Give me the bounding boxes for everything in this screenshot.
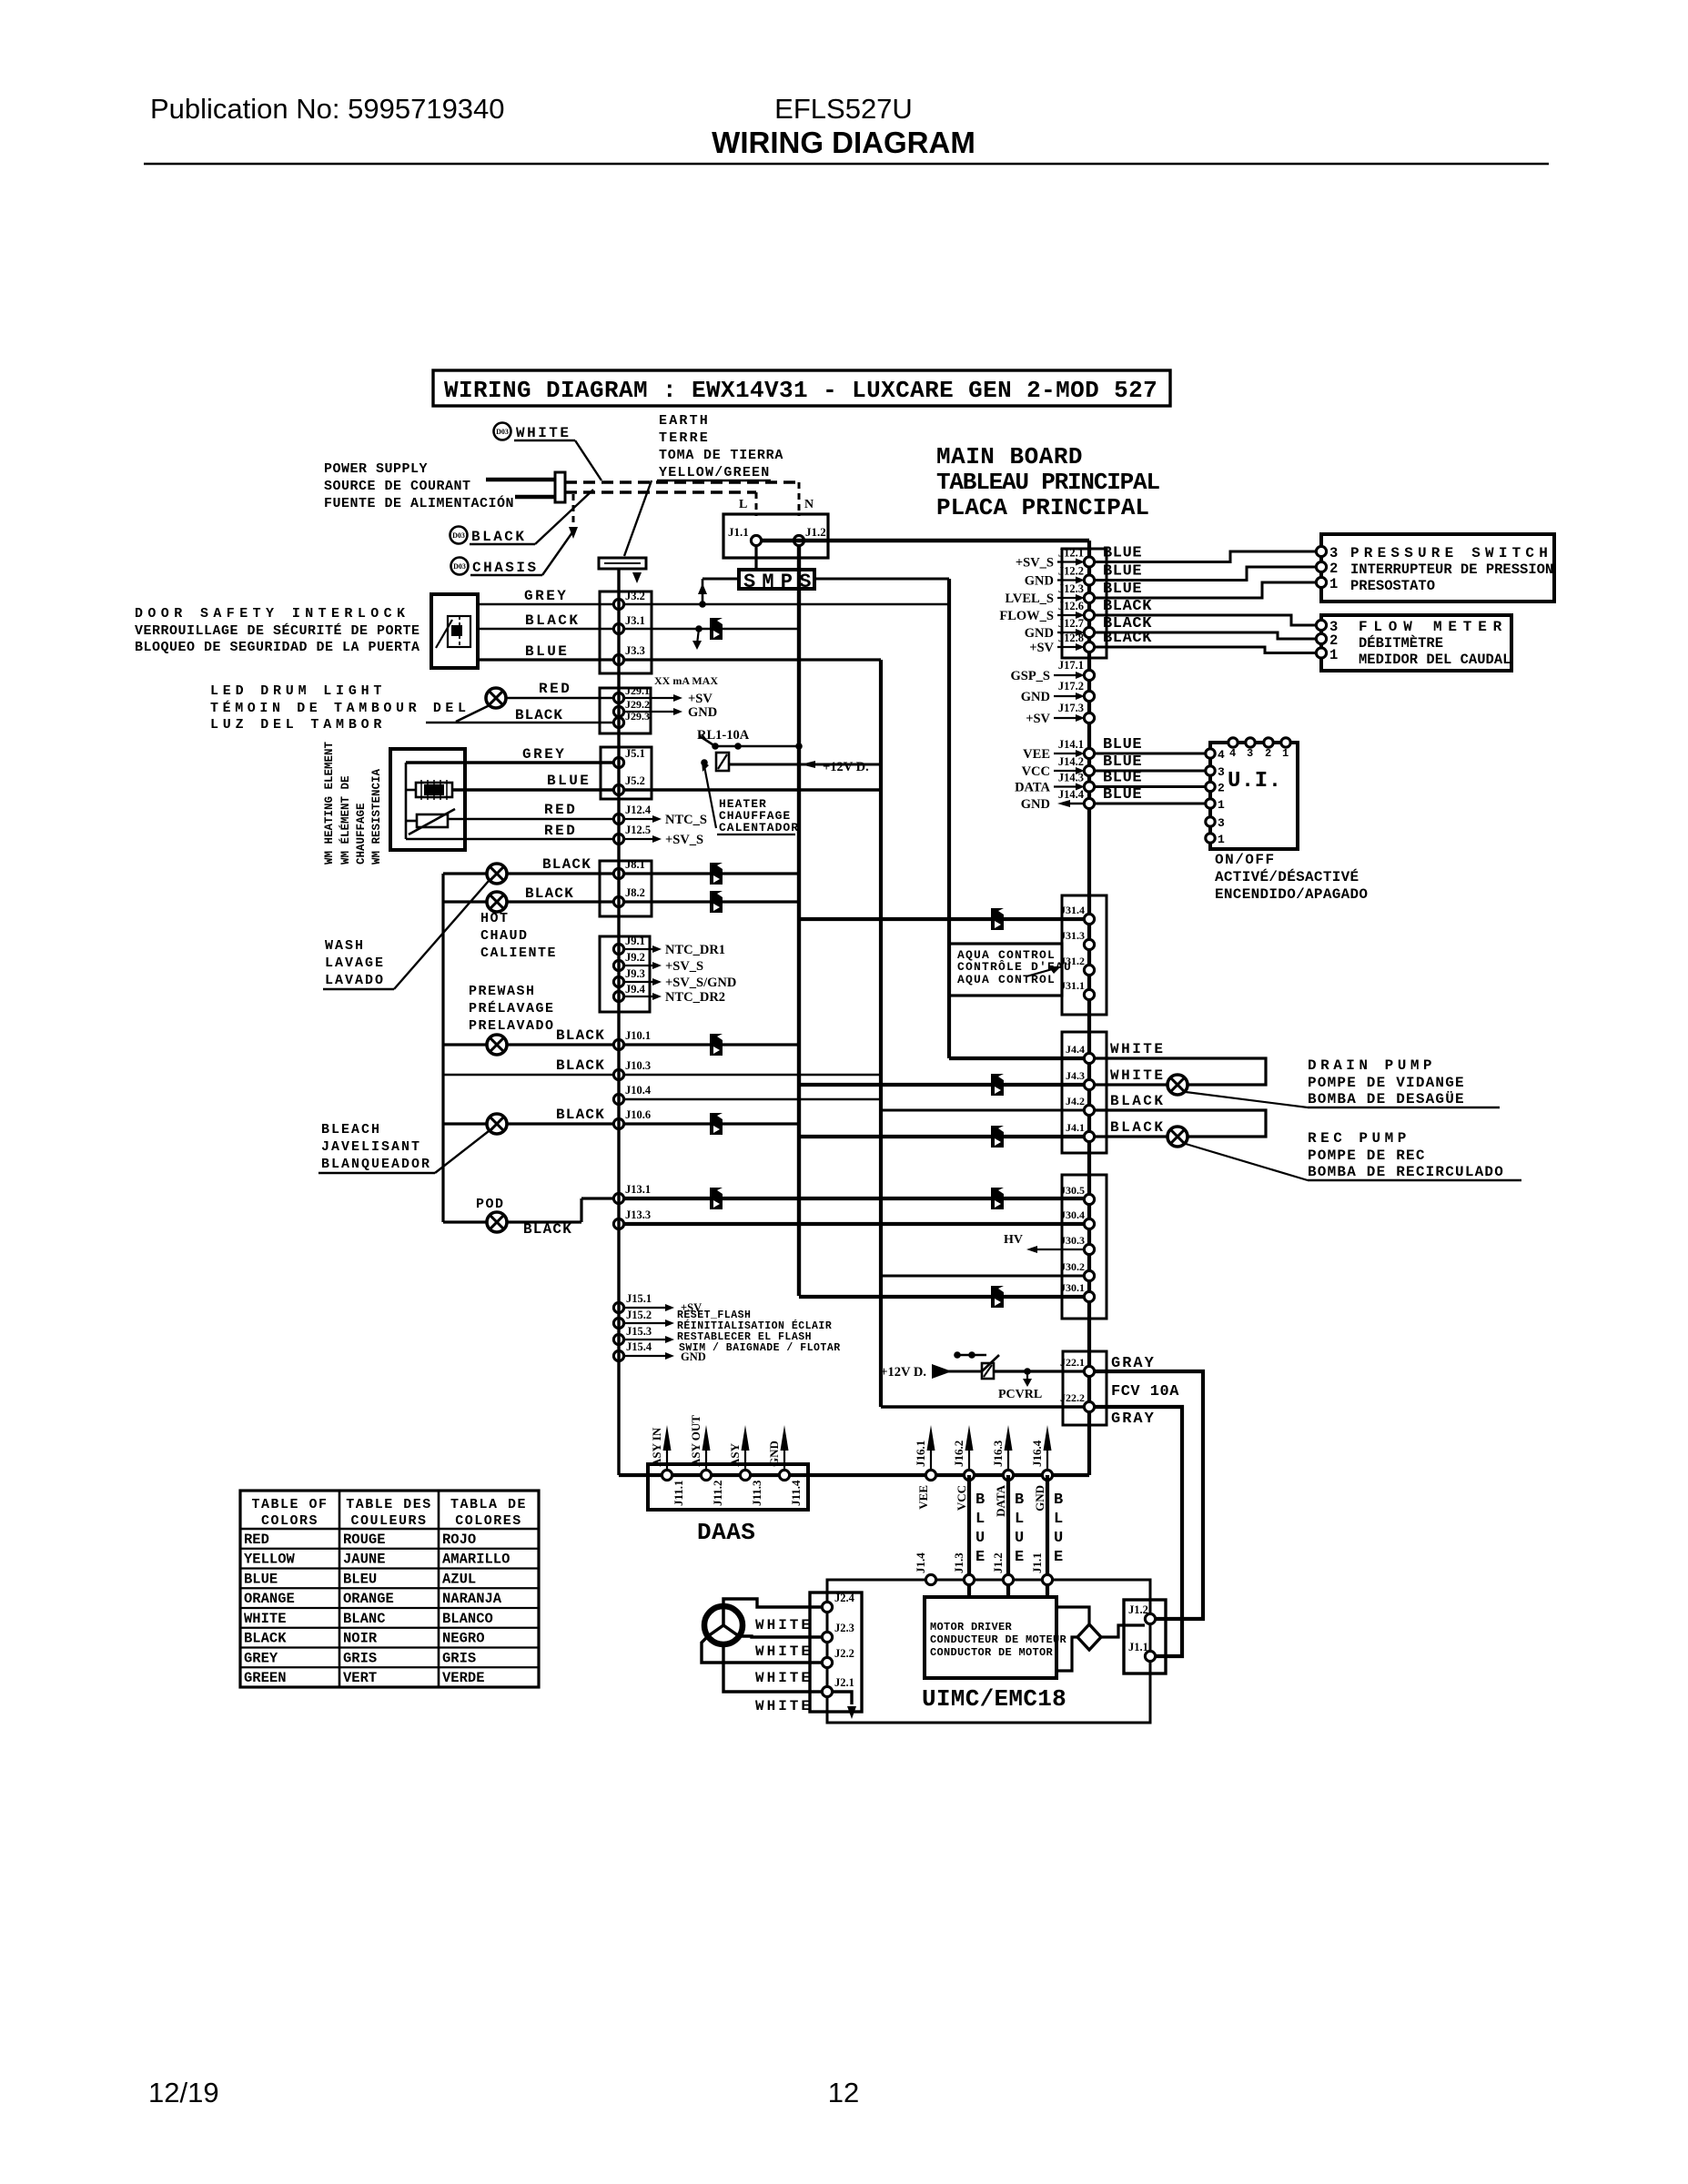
svg-text:GREY: GREY: [244, 1650, 278, 1666]
pin J1.4 (top edge): [925, 1574, 935, 1584]
svg-text:MAIN BOARD: MAIN BOARD: [936, 443, 1083, 470]
svg-text:J3.3: J3.3: [625, 644, 645, 657]
svg-text:WHITE: WHITE: [755, 1698, 813, 1714]
component: door interlock switch: [431, 594, 478, 668]
svg-text:BLOQUEO DE SEGURIDAD DE LA PUE: BLOQUEO DE SEGURIDAD DE LA PUERTA: [135, 640, 420, 655]
stub J17.1 GSP_S: [1054, 674, 1078, 676]
pin J17.1: [1084, 670, 1094, 680]
pin J11.2: [701, 1470, 711, 1480]
pin J14.2: [1084, 765, 1094, 775]
svg-text:BLUE: BLUE: [1103, 736, 1142, 753]
svg-text:RED: RED: [544, 802, 577, 818]
arrow above J16.4: [1046, 1436, 1048, 1470]
stub J12.8 +SV: [1057, 646, 1078, 648]
stub: J15.1 +SV: [624, 1307, 667, 1309]
wire: N bus down: [797, 546, 801, 1296]
svg-text:E: E: [975, 1549, 985, 1566]
valve: wash: [487, 892, 507, 912]
header rule: [144, 163, 1549, 165]
svg-text:BLUE: BLUE: [244, 1571, 278, 1587]
pin J4.3: [1084, 1079, 1094, 1089]
svg-text:WHITE: WHITE: [755, 1670, 813, 1686]
triac on J8.2: [710, 891, 723, 913]
svg-text:BLACK: BLACK: [1110, 1119, 1166, 1136]
wire: J30.2 from neutral riser: [881, 1275, 1084, 1278]
svg-text:J15.3: J15.3: [626, 1325, 652, 1338]
svg-text:BLUE: BLUE: [547, 773, 591, 789]
svg-text:BLANCO: BLANCO: [442, 1611, 493, 1627]
svg-text:J10.6: J10.6: [625, 1108, 651, 1121]
stub: J12.4 NTC_S: [624, 818, 653, 820]
wire: J13.1 to J30.5: [624, 1197, 1084, 1200]
svg-text:LAVAGE: LAVAGE: [325, 955, 385, 971]
svg-text:VEE: VEE: [916, 1485, 930, 1510]
svg-text:J12.3: J12.3: [1058, 582, 1084, 595]
pin J16.2: [964, 1470, 974, 1480]
component: diamond link: [1077, 1624, 1101, 1650]
svg-text:J12.6: J12.6: [1058, 600, 1084, 612]
pin J1.3 (top edge): [964, 1574, 974, 1584]
svg-text:B: B: [1054, 1491, 1063, 1509]
svg-text:VERROUILLAGE DE SÉCURITÉ DE PO: VERROUILLAGE DE SÉCURITÉ DE PORTE: [135, 622, 420, 639]
svg-text:COLORES: COLORES: [455, 1513, 522, 1529]
stub J14.3 DATA: [1054, 785, 1078, 787]
pin J9.4: [613, 991, 623, 1001]
svg-text:J12.8: J12.8: [1058, 632, 1084, 644]
stub: J15.3 swim: [624, 1339, 667, 1340]
svg-text:HOT: HOT: [480, 911, 510, 926]
wire: J14.1 to UI: [1095, 753, 1206, 755]
wire: NTC left lead: [406, 820, 417, 823]
svg-text:FUENTE DE ALIMENTACIÓN: FUENTE DE ALIMENTACIÓN: [324, 495, 514, 511]
pin J1.2: [793, 535, 804, 545]
wire: grey J5.1: [406, 761, 619, 763]
pin J13.3: [613, 1218, 623, 1228]
pin J12.4: [613, 814, 623, 824]
pin J17.3: [1084, 713, 1094, 723]
svg-text:1: 1: [1218, 833, 1225, 846]
svg-text:1: 1: [1329, 647, 1338, 663]
svg-text:J11.2: J11.2: [711, 1480, 724, 1506]
wire: +12V D. feed: [729, 763, 881, 766]
wire: bleach label pointer: [435, 1131, 489, 1173]
svg-text:BLACK: BLACK: [525, 885, 574, 902]
svg-text:1: 1: [1282, 747, 1289, 760]
svg-text:BLACK: BLACK: [556, 1107, 605, 1123]
svg-text:WHITE: WHITE: [755, 1617, 813, 1633]
svg-text:WHITE: WHITE: [1110, 1067, 1166, 1084]
svg-text:J9.1: J9.1: [625, 935, 645, 947]
wire: grey J3.2: [478, 603, 619, 606]
switch: FCV relay contact: [957, 1354, 986, 1357]
connector: power supply plug: [486, 478, 555, 482]
svg-text:WIRING DIAGRAM : EWX14V31 - LU: WIRING DIAGRAM : EWX14V31 - LUXCARE GEN …: [444, 377, 1157, 404]
stub J14.2 VCC: [1054, 770, 1078, 772]
svg-text:J5.1: J5.1: [625, 747, 645, 760]
svg-text:4: 4: [1218, 748, 1225, 762]
wire: J12.3 to pressure pin1: [1095, 582, 1316, 598]
pin J5.1: [613, 757, 623, 767]
svg-text:MOTOR DRIVER: MOTOR DRIVER: [930, 1621, 1013, 1633]
stub: J15.2 reset: [624, 1322, 667, 1324]
wire: J12.8 to flow pin1: [1095, 647, 1316, 653]
svg-text:J3.1: J3.1: [625, 614, 645, 627]
svg-text:BLACK: BLACK: [556, 1057, 605, 1074]
wire: J4.3 to drain pump: [1095, 1083, 1167, 1086]
wire: motor riser 1: [967, 1475, 971, 1580]
svg-text:REC PUMP: REC PUMP: [1308, 1130, 1410, 1147]
svg-text:DOOR SAFETY INTERLOCK: DOOR SAFETY INTERLOCK: [135, 606, 409, 622]
wire: J22.2 row from neutral riser: [881, 1405, 1084, 1408]
svg-text:J30.1: J30.1: [1060, 1281, 1085, 1294]
wire: driver to diamond left: [1056, 1637, 1077, 1671]
wire: wash label pointer: [394, 881, 489, 989]
svg-text:J8.1: J8.1: [625, 858, 645, 871]
svg-text:J31.1: J31.1: [1060, 979, 1085, 992]
svg-text:BLACK: BLACK: [525, 612, 581, 629]
svg-text:CALIENTE: CALIENTE: [480, 945, 557, 961]
arrow above J11.1: [666, 1436, 668, 1470]
relay contact: [715, 745, 799, 748]
pin J29.3: [613, 717, 623, 727]
svg-text:+SV: +SV: [688, 692, 713, 706]
svg-text:J14.2: J14.2: [1058, 755, 1084, 768]
wire: wash valve feed: [443, 900, 487, 903]
wire: J10.1 right: [624, 1043, 799, 1046]
valve: prewash: [487, 1035, 507, 1055]
wire: motor to J2.3: [739, 1636, 822, 1637]
wire: black J10.6: [507, 1122, 619, 1125]
svg-text:ROUGE: ROUGE: [343, 1532, 386, 1548]
svg-text:GND: GND: [1025, 574, 1054, 589]
wire: J1.1 down to SMPS: [754, 546, 757, 570]
wire: prewash feed: [443, 1043, 487, 1046]
svg-text:2: 2: [1265, 747, 1271, 760]
stub J14.1 VEE: [1054, 753, 1078, 754]
svg-text:J4.3: J4.3: [1066, 1069, 1085, 1082]
svg-text:BLACK: BLACK: [542, 856, 591, 873]
svg-text:LED DRUM LIGHT: LED DRUM LIGHT: [210, 683, 386, 699]
motor M: [704, 1606, 743, 1644]
svg-text:BLACK: BLACK: [244, 1631, 287, 1647]
pin UI left 1: [1206, 834, 1215, 843]
svg-text:2: 2: [1218, 782, 1225, 795]
pin J30.1: [1084, 1291, 1094, 1301]
wire: blue J3.3 right to neutral riser: [624, 658, 881, 661]
svg-text:CALENTADOR: CALENTADOR: [719, 821, 799, 834]
pin J22.1: [1084, 1366, 1094, 1376]
svg-text:POD: POD: [476, 1197, 505, 1212]
pin J12.2: [1084, 575, 1094, 585]
pin J12.8: [1084, 642, 1094, 652]
svg-text:EARTH: EARTH: [659, 413, 710, 429]
wire: J4.1 from N bus: [799, 1135, 1084, 1138]
svg-text:+SV: +SV: [1026, 712, 1050, 726]
svg-text:WASH: WASH: [325, 938, 365, 954]
svg-text:DRAIN PUMP: DRAIN PUMP: [1308, 1057, 1436, 1074]
pin J2.1: [822, 1686, 832, 1696]
arrow above J16.2: [968, 1436, 970, 1470]
svg-text:NEGRO: NEGRO: [442, 1631, 485, 1647]
svg-text:TABLE DES: TABLE DES: [346, 1497, 432, 1512]
connector J30: [1062, 1175, 1107, 1319]
svg-text:VEE: VEE: [1023, 747, 1050, 762]
ground arrow at power inlet: [569, 527, 578, 539]
svg-text:U.I.: U.I.: [1228, 769, 1282, 794]
wire: J8.1 right: [624, 872, 799, 875]
wire: element left lead: [406, 789, 416, 792]
svg-text:J29.2: J29.2: [625, 698, 650, 711]
relay coil: [716, 753, 729, 771]
svg-text:MEDIDOR DEL CAUDAL: MEDIDOR DEL CAUDAL: [1359, 652, 1511, 668]
svg-text:J29.1: J29.1: [625, 684, 650, 697]
svg-text:VCC: VCC: [1022, 764, 1050, 779]
pin flow 2: [1316, 633, 1326, 643]
wire: chasis pointer: [542, 532, 572, 575]
wire: driver to diamond top: [1056, 1607, 1089, 1624]
svg-text:N: N: [804, 498, 814, 511]
svg-text:WM RESISTENCIA: WM RESISTENCIA: [370, 768, 383, 864]
svg-text:PLACA PRINCIPAL: PLACA PRINCIPAL: [936, 494, 1149, 521]
svg-text:J31.3: J31.3: [1060, 929, 1085, 942]
svg-text:GREY: GREY: [524, 588, 568, 604]
svg-text:ASY IN: ASY IN: [650, 1427, 663, 1467]
svg-text:3: 3: [1218, 765, 1225, 779]
bus: main board column: [1087, 541, 1091, 1475]
pump: recirculation: [1167, 1127, 1188, 1147]
svg-text:L: L: [975, 1511, 985, 1528]
wire: J12.6 to flow pin3: [1095, 615, 1316, 625]
valve: pod: [487, 1212, 507, 1232]
pin J5.2: [613, 784, 623, 794]
wire: J30.1 from N bus corner: [799, 1295, 1084, 1299]
svg-text:U: U: [1015, 1530, 1024, 1547]
wire: bleach feed: [443, 1122, 487, 1125]
pin UI top 3: [1246, 738, 1255, 747]
svg-text:INTERRUPTEUR DE PRESSION: INTERRUPTEUR DE PRESSION: [1350, 561, 1553, 578]
svg-text:J1.2: J1.2: [991, 1552, 1005, 1573]
svg-text:L: L: [1015, 1511, 1024, 1528]
wire: black J29.3: [426, 722, 619, 724]
svg-text:J2.4: J2.4: [834, 1592, 855, 1604]
wire: N dashed drop: [798, 482, 801, 516]
pin J13.1: [613, 1193, 623, 1203]
svg-text:AZUL: AZUL: [442, 1571, 476, 1587]
stub: J15.4 GND: [624, 1355, 667, 1357]
pin J1.2 (motor): [1145, 1613, 1155, 1623]
svg-text:AQUA CONTROL: AQUA CONTROL: [957, 973, 1056, 986]
wire: motor riser 2: [1006, 1475, 1010, 1580]
wire: motor to J2.4: [723, 1599, 822, 1607]
wire: blue J5.2: [452, 788, 619, 791]
svg-text:TOMA DE TIERRA: TOMA DE TIERRA: [659, 448, 783, 463]
svg-text:12: 12: [828, 2077, 859, 2108]
wire: J13.3 to J30.4: [624, 1222, 1084, 1226]
svg-text:EFLS527U: EFLS527U: [774, 93, 913, 125]
svg-text:FLOW_S: FLOW_S: [999, 609, 1054, 623]
svg-text:E: E: [1054, 1549, 1063, 1566]
svg-text:+SV_S: +SV_S: [665, 959, 703, 974]
svg-text:POMPE DE REC: POMPE DE REC: [1308, 1148, 1426, 1164]
wire: riser into motor driver: [1006, 1585, 1010, 1597]
component: heater element: [416, 783, 452, 797]
pin pressure 2: [1316, 561, 1326, 571]
arrow above J16.1: [930, 1436, 932, 1470]
svg-text:PRELAVADO: PRELAVADO: [469, 1018, 555, 1034]
component: aqua control box: [949, 944, 1062, 996]
svg-text:J30.5: J30.5: [1060, 1184, 1085, 1197]
pin J30.3: [1084, 1244, 1094, 1254]
svg-text:ORANGE: ORANGE: [343, 1591, 394, 1607]
wire: black J10.1: [507, 1043, 619, 1046]
stub: PCVRL: [1026, 1371, 1028, 1381]
pin J15.1: [613, 1302, 623, 1312]
svg-text:J22.2: J22.2: [1060, 1391, 1085, 1404]
stub: J9.2 +SV_S: [624, 965, 653, 966]
svg-text:BLACK: BLACK: [523, 1221, 572, 1238]
connector J4: [1062, 1032, 1107, 1153]
connector J3: [600, 591, 652, 673]
pin J31.2: [1084, 965, 1094, 975]
component: NTC heater: [417, 814, 448, 827]
svg-text:J9.2: J9.2: [625, 951, 645, 964]
svg-text:L: L: [1054, 1511, 1063, 1528]
svg-text:GRIS: GRIS: [343, 1650, 377, 1666]
triac on J30.5 line: [991, 1188, 1004, 1209]
svg-text:GREEN: GREEN: [244, 1670, 287, 1686]
triac on J10.1: [710, 1034, 723, 1056]
svg-text:NARANJA: NARANJA: [442, 1591, 502, 1607]
pin J2.4: [822, 1602, 832, 1612]
svg-text:+SV_S: +SV_S: [1016, 556, 1054, 571]
connector J1 (motor): [1124, 1600, 1166, 1673]
svg-text:BLUE: BLUE: [1103, 786, 1142, 804]
wire: J12.2 to pressure pin2: [1095, 567, 1316, 581]
wire: J12.1 to pressure pin3: [1095, 551, 1316, 562]
stub J14.4 GND arrow: [1065, 803, 1084, 805]
svg-text:BLUE: BLUE: [1103, 545, 1142, 562]
svg-text:BLACK: BLACK: [515, 707, 563, 723]
valve: bleach: [487, 1114, 507, 1134]
component: flow meter box: [1321, 615, 1511, 671]
svg-text:BLUE: BLUE: [525, 643, 569, 660]
pin J14.4: [1084, 798, 1094, 808]
wire: hot valve feed: [443, 872, 487, 875]
svg-text:3: 3: [1329, 545, 1338, 561]
svg-text:J11.1: J11.1: [672, 1480, 685, 1506]
stub J12.7 GND: [1057, 632, 1078, 633]
pin J29.2: [613, 706, 623, 716]
pin J30.2: [1084, 1270, 1094, 1280]
svg-text:BOMBA DE RECIRCULADO: BOMBA DE RECIRCULADO: [1308, 1164, 1504, 1180]
pin J30.4: [1084, 1218, 1094, 1228]
svg-text:U: U: [975, 1530, 985, 1547]
wire: blue J5.2 right to neutral riser: [624, 788, 881, 791]
pin J12.1: [1084, 557, 1094, 567]
svg-text:Publication No: 5995719340: Publication No: 5995719340: [150, 93, 505, 125]
wire: motor to J2.1: [723, 1644, 822, 1692]
svg-text:J17.3: J17.3: [1058, 702, 1084, 714]
lamp: drum light: [486, 688, 506, 708]
table of colors: [240, 1491, 539, 1687]
wire: J10.4 right to neutral riser: [624, 1098, 881, 1100]
svg-text:J11.4: J11.4: [789, 1480, 803, 1506]
stub: J29.1 +SV: [624, 697, 677, 699]
svg-text:3: 3: [1218, 816, 1225, 830]
arrow above J11.3: [744, 1436, 746, 1470]
svg-text:J31.2: J31.2: [1060, 955, 1085, 967]
wire: drain label pointer: [1186, 1092, 1308, 1107]
pin J12.3: [1084, 592, 1094, 602]
svg-text:J15.2: J15.2: [626, 1309, 652, 1321]
svg-text:J12.5: J12.5: [625, 824, 651, 836]
wire: J4.2 from neutral riser: [881, 1109, 1084, 1112]
svg-text:FCV 10A: FCV 10A: [1111, 1383, 1179, 1400]
svg-text:J12.4: J12.4: [625, 804, 652, 816]
wire: J10.3 right to neutral riser: [624, 1074, 881, 1076]
wire: black J8.2: [507, 900, 619, 903]
svg-text:XX mA MAX: XX mA MAX: [654, 674, 718, 687]
svg-text:NTC_DR1: NTC_DR1: [665, 943, 725, 957]
pin J9.3: [613, 976, 623, 986]
svg-text:J13.1: J13.1: [625, 1183, 651, 1196]
stub: J9.4 NTC_DR2: [624, 996, 653, 997]
node D03 black: [450, 527, 468, 544]
pin J30.5: [1084, 1194, 1094, 1204]
connector J22: [1063, 1351, 1107, 1425]
stub: J9.1 NTC_DR1: [624, 948, 653, 950]
svg-text:+SV: +SV: [1029, 641, 1054, 655]
pin J12.7: [1084, 627, 1094, 637]
svg-text:CHASIS: CHASIS: [472, 560, 539, 576]
svg-text:JAUNE: JAUNE: [343, 1552, 386, 1568]
node D03 white: [494, 423, 511, 440]
pump: drain: [1167, 1075, 1188, 1095]
svg-text:1: 1: [1329, 576, 1338, 592]
pin J16.1: [925, 1470, 935, 1480]
svg-text:PRESSURE SWITCH: PRESSURE SWITCH: [1350, 545, 1552, 561]
bus: valve feed vertical: [441, 874, 444, 1222]
svg-text:J10.1: J10.1: [625, 1029, 651, 1042]
stub: J9.3 +SV_S/GND: [624, 981, 653, 983]
wire: white lead pointer: [575, 440, 601, 480]
svg-text:PRESOSTATO: PRESOSTATO: [1350, 578, 1435, 594]
connector J1 (mains): [723, 514, 828, 558]
svg-text:SMPS: SMPS: [743, 571, 818, 593]
stub J17.2 GND: [1054, 695, 1078, 697]
wire: J14.2 to UI: [1095, 770, 1206, 773]
wire: red J12.4: [448, 818, 619, 821]
svg-text:BLANQUEADOR: BLANQUEADOR: [321, 1157, 431, 1172]
svg-text:J8.2: J8.2: [625, 886, 645, 899]
wire: earth label pointer: [624, 480, 652, 556]
svg-text:GND: GND: [1021, 690, 1050, 704]
svg-text:FLOW METER: FLOW METER: [1359, 619, 1508, 635]
svg-text:HV: HV: [1004, 1233, 1023, 1247]
svg-text:J12.2: J12.2: [1058, 565, 1084, 578]
ground arrow below bar: [632, 572, 642, 583]
pin J10.6: [613, 1118, 623, 1128]
svg-text:+12V D.: +12V D.: [880, 1365, 926, 1380]
svg-text:J1.2: J1.2: [1128, 1603, 1148, 1616]
svg-text:ACTIVÉ/DÉSACTIVÉ: ACTIVÉ/DÉSACTIVÉ: [1215, 868, 1359, 885]
svg-text:+12V D.: +12V D.: [823, 760, 869, 774]
svg-text:J14.3: J14.3: [1058, 772, 1084, 784]
arrow above J11.4: [783, 1436, 785, 1470]
svg-text:J2.1: J2.1: [834, 1676, 854, 1689]
pin J3.2: [613, 599, 623, 609]
wire: black lead pointer: [535, 490, 593, 544]
